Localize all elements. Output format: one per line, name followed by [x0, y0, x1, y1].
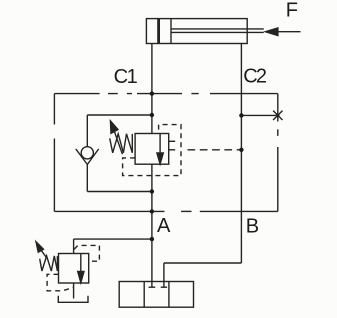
check valve seat right [87, 149, 98, 165]
check valve bottom branch wire [87, 191, 152, 193]
manifold divider 2 [168, 282, 170, 308]
wire C2 to X [241, 114, 277, 116]
node dot C2 X branch [239, 113, 243, 117]
svg-text:C2: C2 [243, 66, 267, 88]
check valve seat left [76, 149, 88, 165]
V2 spring [40, 256, 58, 271]
enclosure bottom edge [54, 210, 164, 212]
V1 spring [110, 134, 133, 153]
wire B horizontal to block [164, 262, 242, 264]
V2 adjustment arrow shaft [41, 250, 47, 258]
check valve ball [81, 147, 93, 159]
svg-text:A: A [157, 215, 171, 237]
relief valve V2 body [59, 254, 89, 284]
node dot check top [150, 113, 154, 117]
enclosure right edge lower dashed [277, 129, 279, 211]
check valve top branch wire [87, 114, 152, 116]
wire C2 cylinder drop [240, 44, 242, 264]
V2 internal flow arrow [78, 272, 84, 283]
V2 internal flow line [80, 254, 82, 273]
V1 pilot stub upper [169, 140, 176, 142]
node dot A/bottom edge [150, 209, 154, 213]
V2 pilot dashed bottom left [47, 274, 73, 291]
counterbalance valve V1 body [135, 134, 169, 165]
V1 pilot stub lower [169, 149, 176, 151]
enclosure right edge upper [277, 94, 279, 122]
force arrow F shaft [278, 31, 301, 33]
V2 drain line [73, 283, 75, 299]
svg-text:C1: C1 [114, 66, 138, 88]
cylinder barrel [146, 19, 247, 44]
enclosure dashed box top edge [54, 93, 198, 95]
force arrow F head [266, 28, 278, 36]
V2 pilot dashed top right [74, 245, 99, 261]
manifold block [119, 282, 193, 308]
svg-text:B: B [246, 216, 259, 238]
V2 inlet stub [73, 239, 75, 253]
cylinder gland line [170, 19, 172, 44]
port tick A [149, 286, 156, 288]
V1 pilot dashed outline [123, 125, 181, 176]
tank symbol [58, 296, 88, 303]
V2 inlet wire to A [74, 238, 152, 240]
cylinder rod bottom line [171, 31, 264, 33]
wire C1 cylinder drop [151, 44, 153, 134]
wire A line below valve [151, 164, 153, 287]
check valve lower stem [86, 164, 88, 191]
V1 internal flow arrow [157, 153, 163, 164]
V2 adjustment arrow head [36, 242, 44, 253]
cylinder rod top line [171, 28, 264, 30]
node dot check bottom [150, 189, 154, 193]
plugged port X symbol [273, 111, 282, 120]
V1 adjustment arrow shaft [114, 131, 122, 155]
manifold divider 1 [143, 282, 145, 308]
svg-text:F: F [286, 0, 298, 22]
cylinder piston [157, 19, 160, 44]
V1 internal flow line [159, 134, 161, 154]
node dot C2 pilot [239, 148, 243, 152]
port tick B [161, 286, 167, 288]
node dot C1/top edge [150, 91, 154, 95]
wire B drop to block [163, 263, 165, 287]
node dot relief branch [150, 237, 154, 241]
V1 remote pilot line to C2 [188, 149, 242, 151]
enclosure dashed box left edge [53, 94, 55, 125]
V1 adjustment arrow head [110, 121, 118, 133]
check valve upper stem [86, 115, 88, 147]
